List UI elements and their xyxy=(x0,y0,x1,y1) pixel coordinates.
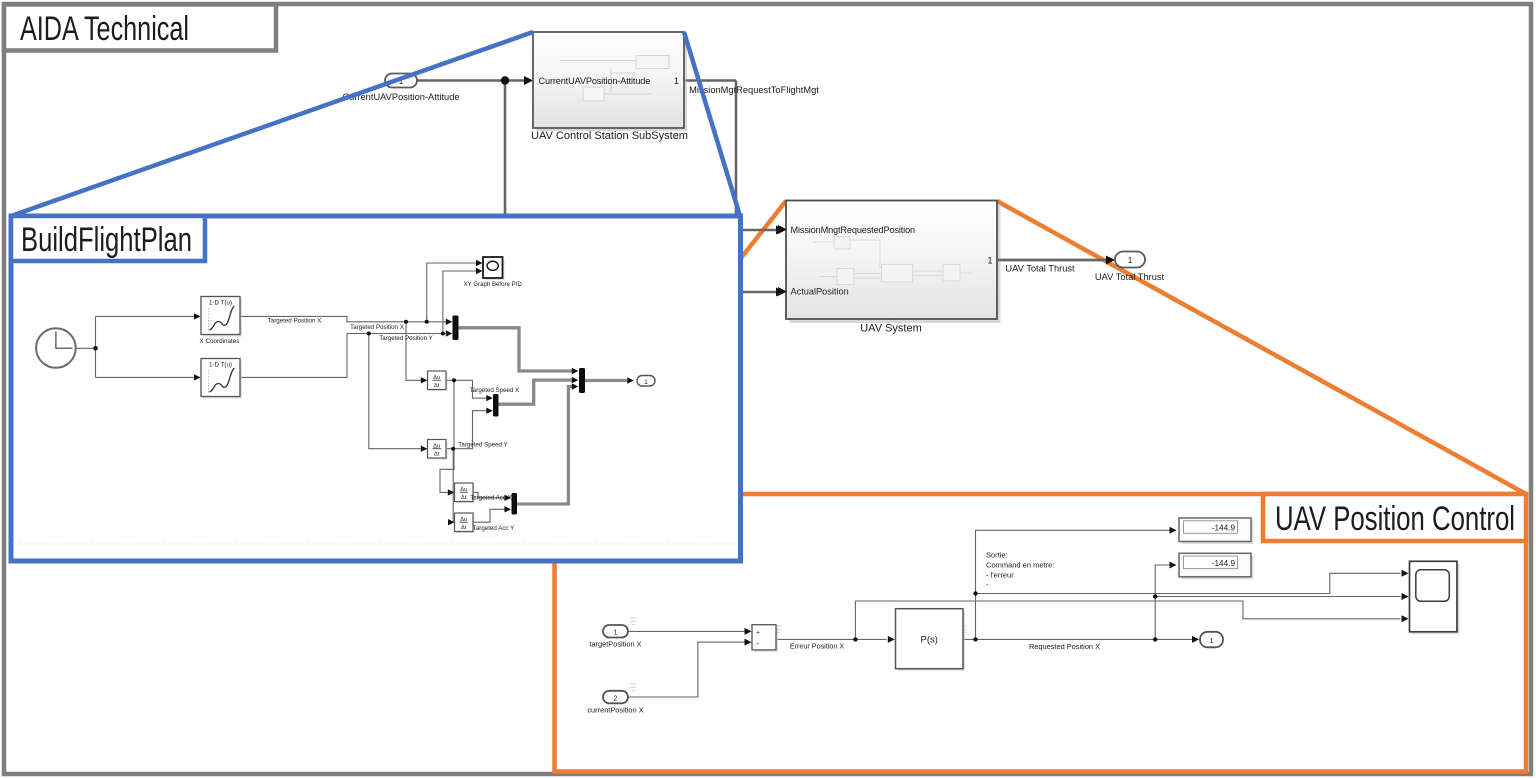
svg-text:CurrentUAVPosition-Attitude: CurrentUAVPosition-Attitude xyxy=(539,76,651,86)
svg-text:1: 1 xyxy=(987,256,992,266)
svg-text:UAV Total Thrust: UAV Total Thrust xyxy=(1095,272,1165,282)
svg-text:MissionMgtRequestToFlightMgt: MissionMgtRequestToFlightMgt xyxy=(689,85,819,95)
svg-text:UAV Total Thrust: UAV Total Thrust xyxy=(1005,264,1075,274)
svg-text:Targeted Speed X: Targeted Speed X xyxy=(470,387,520,394)
svg-text:P(s): P(s) xyxy=(920,635,937,646)
svg-text:-: - xyxy=(756,639,759,648)
svg-text:UAV Position Control: UAV Position Control xyxy=(1275,500,1515,538)
svg-text:currentPosition X: currentPosition X xyxy=(587,706,643,715)
svg-text:Targeted Position X: Targeted Position X xyxy=(268,317,322,324)
svg-text:UAV Control Station SubSystem: UAV Control Station SubSystem xyxy=(531,130,688,142)
svg-text:1: 1 xyxy=(614,630,618,637)
svg-text:Targeted Position X: Targeted Position X xyxy=(350,324,404,331)
svg-text:+: + xyxy=(756,630,760,637)
svg-text:Sortie:: Sortie: xyxy=(986,551,1008,560)
svg-text:1-D T(u): 1-D T(u) xyxy=(209,300,232,307)
svg-text:-144.9: -144.9 xyxy=(1212,559,1236,568)
svg-text:UAV System: UAV System xyxy=(860,323,922,335)
svg-text:Targeted Position Y: Targeted Position Y xyxy=(379,335,433,342)
svg-text:Targeted Speed Y: Targeted Speed Y xyxy=(458,442,507,449)
svg-text:MissionMngtRequestedPosition: MissionMngtRequestedPosition xyxy=(791,225,916,235)
svg-text:1: 1 xyxy=(1210,636,1214,645)
svg-text:X Coordinates: X Coordinates xyxy=(200,338,240,345)
svg-text:1-D T(u): 1-D T(u) xyxy=(209,362,232,369)
svg-text:BuildFlightPlan: BuildFlightPlan xyxy=(21,221,192,259)
svg-text:Targeted Acc X: Targeted Acc X xyxy=(470,495,512,502)
svg-text:Δt: Δt xyxy=(461,495,467,501)
svg-text:Erreur Position X: Erreur Position X xyxy=(790,642,845,651)
svg-text:Command en metre:: Command en metre: xyxy=(986,561,1054,570)
svg-text:1: 1 xyxy=(1128,255,1133,265)
svg-text:ActualPosition: ActualPosition xyxy=(791,287,849,297)
svg-text:-144.9: -144.9 xyxy=(1212,524,1236,533)
svg-text:Requested Position X: Requested Position X xyxy=(1029,642,1100,651)
svg-text:Δt: Δt xyxy=(461,525,467,531)
svg-text:Δt: Δt xyxy=(434,383,440,389)
svg-text:- l'erreur: - l'erreur xyxy=(986,571,1014,580)
svg-text:1: 1 xyxy=(674,76,679,86)
svg-text:1: 1 xyxy=(644,379,648,386)
svg-text:AIDA Technical: AIDA Technical xyxy=(20,10,189,48)
svg-text:Δt: Δt xyxy=(434,452,440,458)
svg-text:targetPosition X: targetPosition X xyxy=(589,640,641,649)
svg-text:XY Graph Before PID: XY Graph Before PID xyxy=(464,281,523,288)
svg-text:2: 2 xyxy=(614,695,618,702)
svg-text:Targeted Acc Y: Targeted Acc Y xyxy=(473,525,515,532)
